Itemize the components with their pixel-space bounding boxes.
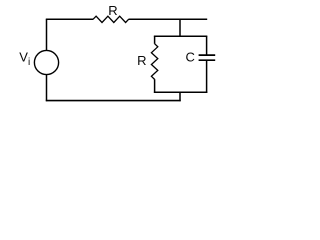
wire: left vertical from top wire down to source top terminal bbox=[46, 19, 48, 51]
svg-text:Vi: Vi bbox=[19, 49, 30, 68]
wire: parallel-box bottom rail bbox=[154, 91, 207, 93]
capacitor C top plate bbox=[199, 54, 216, 56]
svg-text:R: R bbox=[137, 53, 146, 68]
wire: source bottom terminal down to bottom rail bbox=[46, 74, 48, 101]
wire: left branch lead from box top to resistor R2 bbox=[154, 36, 156, 44]
capacitor C bottom plate bbox=[199, 59, 216, 61]
resistor R (shunt, vertical) zigzag bbox=[151, 44, 157, 80]
wire: left branch lead from resistor R2 to box bottom bbox=[154, 79, 156, 93]
svg-text:R: R bbox=[108, 3, 117, 18]
resistor R (series, top) zigzag bbox=[93, 16, 129, 22]
wire: parallel-box top rail bbox=[154, 35, 207, 37]
wire: top rail left segment bbox=[46, 18, 93, 20]
voltage source Vi (circle) bbox=[34, 50, 58, 74]
wire: right branch lead from box top to capacitor bbox=[206, 36, 208, 55]
wire: stub from box bottom down to bottom rail bbox=[179, 92, 181, 101]
svg-text:C: C bbox=[186, 50, 195, 65]
wire: right branch lead from capacitor to box bottom bbox=[206, 60, 208, 93]
wire: bottom rail from source to stub bbox=[46, 100, 181, 102]
wire: junction drop from top rail to parallel-box top bbox=[179, 19, 181, 36]
wire: top rail right segment ending above capacitor branch bbox=[129, 18, 208, 20]
